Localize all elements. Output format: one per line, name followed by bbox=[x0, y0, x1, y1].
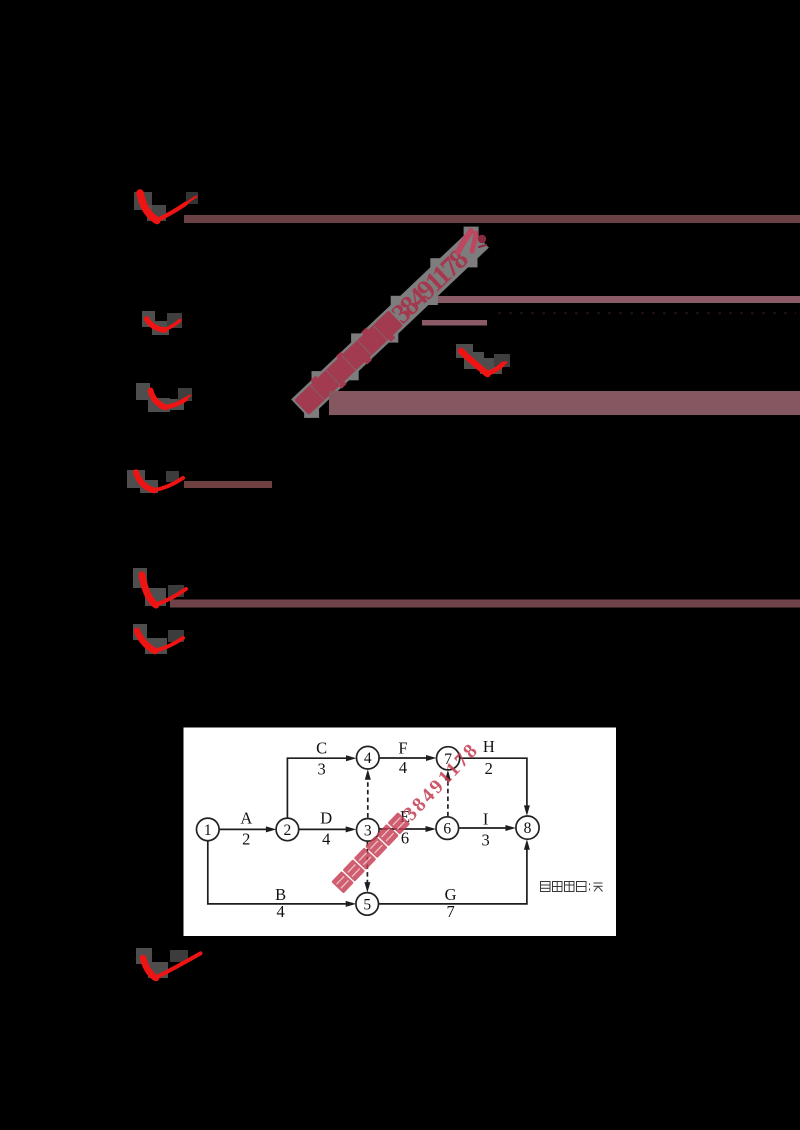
time unit note (fake CJK glyphs) bbox=[541, 882, 603, 892]
checkmark 2 bbox=[142, 311, 182, 335]
arrowhead into node 8 from left bbox=[505, 825, 516, 831]
node 6 bbox=[436, 817, 459, 840]
activity labels bbox=[240, 737, 494, 921]
svg-text:6: 6 bbox=[443, 821, 451, 838]
svg-text:4: 4 bbox=[364, 750, 372, 767]
checkmark 1 bbox=[134, 192, 198, 221]
svg-text:3: 3 bbox=[481, 830, 489, 849]
CJK blob zone bbox=[294, 310, 403, 415]
arrowhead into node 3 bbox=[346, 826, 357, 832]
checkmark 4 (middle right) bbox=[456, 344, 510, 374]
svg-text:8: 8 bbox=[524, 820, 532, 837]
big watermark gray staircase blocks bbox=[304, 227, 479, 418]
svg-text:3: 3 bbox=[364, 822, 372, 839]
node numbers bbox=[204, 750, 532, 913]
svg-text:5: 5 bbox=[363, 896, 371, 913]
dashed 3 to 5 bbox=[366, 841, 368, 883]
checkmark 8 bbox=[136, 948, 201, 978]
underline row 3 short bbox=[422, 320, 487, 326]
wire 1-2 bbox=[219, 828, 267, 830]
wire 3-6 bbox=[379, 828, 426, 830]
faint dotted text remains under row 2 bbox=[498, 312, 796, 315]
arrowhead into node 8 from bottom bbox=[524, 839, 530, 850]
wire 1 down to 5 bbox=[208, 841, 346, 904]
arrowheads bbox=[266, 755, 530, 907]
svg-text:1: 1 bbox=[204, 822, 212, 839]
node 5 bbox=[356, 893, 379, 916]
arrowhead of dashed link into node 7 bbox=[445, 770, 451, 781]
checkmark 6 bbox=[133, 568, 186, 606]
node 4 bbox=[357, 746, 380, 769]
wire 4-7 bbox=[379, 757, 427, 759]
dashed 3 to 4 bbox=[367, 779, 369, 818]
svg-text:7: 7 bbox=[446, 902, 454, 921]
diagram watermark (rotated) bbox=[331, 738, 484, 896]
svg-text:2: 2 bbox=[485, 759, 493, 778]
arrowhead into node 4 from left bbox=[346, 755, 357, 761]
svg-text:F: F bbox=[398, 739, 407, 758]
svg-text:C: C bbox=[316, 739, 327, 758]
wire 7 corner down to 8 bbox=[460, 758, 527, 806]
underline row 1 bbox=[184, 215, 800, 223]
underline row 5 short bbox=[184, 481, 272, 488]
checkmark 5 bbox=[127, 470, 183, 493]
arrowhead into node 2 bbox=[266, 826, 277, 832]
svg-text:4: 4 bbox=[399, 758, 407, 777]
node 1 bbox=[197, 818, 220, 841]
wire 2-3 bbox=[299, 828, 347, 830]
arrowhead into node 7 from left bbox=[426, 755, 437, 761]
node 7 bbox=[437, 747, 460, 770]
nodes bbox=[197, 746, 540, 915]
svg-text:A: A bbox=[240, 809, 252, 828]
svg-text:2: 2 bbox=[242, 830, 250, 849]
arrowhead into node 6 bbox=[426, 826, 437, 832]
underline row 2 bbox=[430, 296, 800, 303]
svg-text:I: I bbox=[483, 810, 489, 829]
arrowhead into node 8 from top bbox=[524, 805, 530, 816]
diagram edges bbox=[208, 758, 527, 904]
svg-text:2: 2 bbox=[284, 822, 292, 839]
node 3 bbox=[357, 819, 380, 842]
svg-text:38491178: 38491178 bbox=[386, 243, 475, 329]
wire 5 corner up to 8 bbox=[378, 849, 527, 904]
wire 2 up to 4 bbox=[287, 758, 346, 818]
svg-text:D: D bbox=[320, 809, 332, 828]
arrowhead of dashed link into node 4 bbox=[365, 769, 371, 780]
arrowhead of dashed link into node 5 bbox=[364, 882, 370, 893]
arrowhead into node 5 from left bbox=[346, 901, 357, 907]
svg-text:3: 3 bbox=[317, 760, 325, 779]
checkmark 7 bbox=[133, 624, 184, 654]
svg-text:4: 4 bbox=[276, 902, 284, 921]
wire 6-8 bbox=[459, 827, 507, 829]
checkmark 3 bbox=[136, 383, 192, 412]
thick underline row 4 bbox=[329, 391, 800, 415]
diagram white box bbox=[184, 728, 617, 937]
node 2 bbox=[276, 818, 299, 841]
node 8 bbox=[516, 816, 539, 839]
dashed 6 to 7 bbox=[447, 780, 449, 816]
big watermark band (rotated) bbox=[290, 228, 491, 421]
underline row 6 bbox=[170, 600, 800, 608]
svg-text:H: H bbox=[483, 737, 495, 756]
svg-text:4: 4 bbox=[322, 830, 330, 849]
watermark tip scribble bbox=[458, 231, 486, 252]
